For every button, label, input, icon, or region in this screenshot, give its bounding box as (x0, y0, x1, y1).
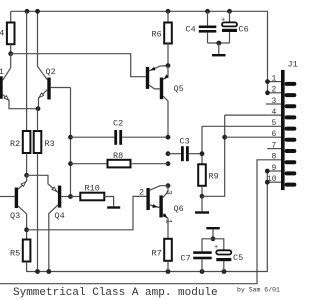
svg-text:Q3: Q3 (10, 211, 20, 221)
wire C4/C6 bottoms (208, 42, 230, 44)
svg-text:Q1: Q1 (0, 67, 4, 77)
J1 pin 6 (225, 130, 281, 139)
capacitor C3 (168, 137, 202, 162)
junction dots on V- rail (35, 269, 226, 274)
svg-text:2: 2 (272, 86, 277, 95)
connector J1 body (281, 60, 298, 191)
svg-text:1: 1 (272, 74, 277, 83)
J1 pin 5 (202, 119, 281, 128)
transistor Q2 (38, 11, 71, 108)
junction dots on V+ rail (25, 9, 232, 14)
wire R9 bottom to pin4 vertical (202, 115, 225, 196)
svg-text:C5: C5 (233, 253, 243, 263)
svg-text:C4: C4 (186, 25, 196, 35)
svg-text:C7: C7 (181, 254, 191, 264)
wire Q3 collector node to lower driver base (27, 196, 147, 229)
caption title (13, 287, 218, 299)
resistor R10 (71, 184, 114, 207)
J1 pin 8 + ground return wire (0, 153, 281, 284)
resistor R9 (198, 126, 219, 196)
J1 pin 3 (266, 97, 281, 106)
transistor T1 (Q5 driver, unlabeled) (146, 66, 168, 89)
transistor Q5 (160, 66, 184, 138)
svg-text:C6: C6 (239, 25, 249, 35)
svg-text:R6: R6 (152, 30, 162, 40)
svg-text:C2: C2 (113, 119, 123, 129)
transistor Q6 (159, 186, 183, 239)
resistor R4 (0, 11, 15, 53)
resistor R8 (71, 151, 169, 167)
junction dot C5/C7 node (211, 236, 216, 241)
svg-text:+: + (214, 244, 218, 252)
svg-text:R4: R4 (0, 29, 4, 39)
svg-text:9: 9 (272, 164, 277, 173)
transistor Q1 (clipped at left edge) (0, 54, 38, 109)
node B junction (R4 bottom) (8, 51, 13, 56)
ground symbol below R9 (195, 196, 209, 213)
svg-text:Q4: Q4 (55, 211, 65, 221)
junction dot pin6 on pin4 vertical (222, 135, 227, 140)
svg-text:Symmetrical Class A amp. modul: Symmetrical Class A amp. module (13, 287, 218, 299)
junction dots on VAS vertical (166, 135, 171, 188)
junction dots on base vertical (68, 135, 73, 199)
resistor R2 (10, 11, 30, 175)
capacitor C7 (181, 239, 214, 272)
ground symbol below C4/C6 (212, 43, 226, 56)
svg-text:Q5: Q5 (174, 84, 184, 94)
connector J1 pin stubs (285, 82, 297, 187)
svg-text:R2: R2 (10, 139, 20, 149)
svg-text:R3: R3 (45, 139, 55, 149)
svg-text:Q2: Q2 (46, 67, 56, 77)
wire V+ top rail (11, 11, 268, 93)
svg-text:Q6: Q6 (174, 204, 184, 214)
svg-text:+: + (221, 17, 225, 25)
wire node B to driver base (11, 54, 146, 77)
junction dot emitters Q1/Q2 (36, 106, 41, 111)
svg-text:J1: J1 (288, 60, 298, 70)
capacitor C6 (electrolytic) (221, 11, 249, 43)
svg-text:5: 5 (272, 119, 277, 128)
resistor R5 (10, 171, 267, 272)
svg-text:R7: R7 (152, 249, 162, 259)
junction dot C4/C6 ground node (216, 41, 221, 46)
inverted ground symbol C5/C7 node (206, 227, 220, 239)
junction dot R9 bottom (200, 194, 205, 199)
svg-text:7: 7 (272, 141, 277, 150)
junction dot R6 bottom / driver emitter (166, 63, 171, 68)
svg-text:R9: R9 (209, 172, 219, 182)
junction dot C3 right / R9 top (200, 151, 205, 156)
capacitor C2 (71, 119, 169, 145)
caption author (237, 287, 280, 294)
svg-text:3: 3 (164, 190, 173, 195)
transistor Q4 (27, 175, 71, 271)
svg-text:6: 6 (272, 130, 277, 139)
resistor R6 (152, 11, 172, 65)
resistor R7 (152, 239, 172, 272)
svg-text:R10: R10 (85, 184, 100, 194)
J1 pin 7 (267, 141, 281, 150)
resistor R3 (34, 109, 55, 272)
junction dot R2 bottom (24, 173, 29, 178)
J1 pin 1 (265, 74, 281, 84)
capacitor C5 (electrolytic) (213, 239, 243, 272)
svg-text:by Sam 6/01: by Sam 6/01 (237, 287, 280, 294)
junction dot Q3 collector node (24, 227, 29, 232)
J1 pin 10 (265, 175, 281, 185)
ground symbol at R10 (107, 206, 120, 208)
transistor T2 (Q6 driver, unlabeled, pin 2 marked) (139, 186, 168, 210)
svg-text:R5: R5 (10, 249, 20, 259)
capacitor C4 (186, 11, 217, 43)
J1 pin 4 (225, 108, 281, 117)
J1 pin 2 (265, 86, 281, 96)
svg-text:C3: C3 (180, 137, 190, 147)
wire Q2/Q4 base vertical (70, 88, 72, 197)
svg-text:R8: R8 (113, 151, 123, 161)
J1 pin 9 (265, 164, 281, 174)
svg-text:8: 8 (272, 153, 277, 162)
svg-text:4: 4 (272, 108, 277, 117)
svg-text:1: 1 (164, 219, 173, 224)
transistor Q3 (0, 175, 27, 230)
svg-text:3: 3 (272, 97, 277, 106)
svg-text:2: 2 (139, 188, 144, 198)
